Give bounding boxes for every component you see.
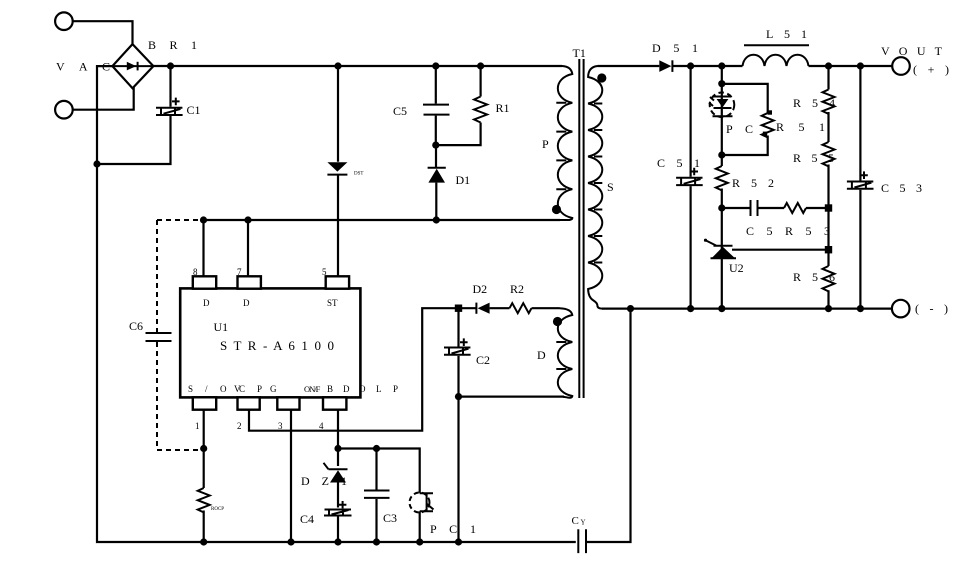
- node C2 rail bottom: [455, 538, 462, 545]
- node C51 bottom: [687, 305, 694, 312]
- svg-text:C 5 R 5 3: C 5 R 5 3: [746, 224, 830, 238]
- AC input terminal top: [55, 12, 73, 30]
- wire top terminal to bridge top: [73, 21, 133, 45]
- node PC1 bottom: [416, 538, 423, 545]
- inductor L51: [743, 45, 829, 66]
- node DST top: [334, 62, 341, 69]
- node C4 bottom: [334, 538, 341, 545]
- capacitor C3: [364, 449, 390, 543]
- node C3 top: [373, 445, 380, 452]
- zener DZ1: [324, 449, 348, 508]
- node L51 right / R54 top: [825, 62, 832, 69]
- node C3 bottom: [373, 538, 380, 545]
- node C5 top: [432, 62, 439, 69]
- svg-text:L: L: [376, 384, 382, 394]
- node R51/LED bottom: [718, 151, 725, 158]
- node C51 top: [687, 62, 694, 69]
- terminal VOUT minus: [892, 300, 910, 318]
- svg-text:C 5 1: C 5 1: [657, 156, 700, 170]
- capacitor C2: [444, 308, 471, 396]
- svg-text:3: 3: [278, 421, 283, 431]
- svg-text:D1: D1: [456, 173, 471, 187]
- svg-text:D2: D2: [473, 282, 488, 296]
- wire primary-return line (drain line): [204, 219, 561, 221]
- svg-text:G: G: [270, 384, 277, 394]
- svg-text:D Z 1: D Z 1: [301, 474, 347, 488]
- node C5/R1/D1: [432, 142, 439, 149]
- node Cy riser: [627, 305, 634, 312]
- capacitor C4: [324, 501, 352, 542]
- resistor R1: [436, 66, 487, 145]
- shunt regulator U2: [704, 208, 829, 309]
- svg-text:S T R - A 6 1 0 0: S T R - A 6 1 0 0: [220, 338, 334, 353]
- svg-text:D: D: [203, 298, 210, 308]
- terminal VOUT plus: [892, 57, 910, 75]
- svg-text:D: D: [243, 298, 250, 308]
- AC input terminal bottom: [55, 101, 73, 119]
- node pin7: [244, 216, 251, 223]
- diode D51: [659, 60, 690, 72]
- svg-text:R 5 2: R 5 2: [732, 176, 774, 190]
- svg-text:R 5 6: R 5 6: [793, 270, 835, 284]
- wire secondary top to D51: [598, 65, 660, 67]
- wire bottom terminal to bridge bottom: [73, 88, 134, 110]
- svg-text:C5: C5: [393, 104, 407, 118]
- diode D2: [459, 303, 510, 314]
- svg-text:O: O: [359, 384, 366, 394]
- node D1 bottom: [433, 216, 440, 223]
- svg-text:C 5 3: C 5 3: [881, 181, 922, 195]
- transformer T1: [552, 59, 607, 398]
- svg-text:5: 5: [322, 267, 327, 277]
- node pin8: [200, 216, 207, 223]
- wire pin3 GND stub to bus: [290, 410, 292, 542]
- node pin3 bottom: [287, 538, 294, 545]
- svg-text:ROCP: ROCP: [211, 507, 224, 512]
- resistor R55: [823, 142, 835, 266]
- node DZ1 top: [334, 445, 341, 452]
- bridge rectifier BR1: [112, 44, 153, 88]
- svg-text:D: D: [343, 384, 350, 394]
- node U2 ref: [825, 246, 832, 253]
- svg-text:C2: C2: [476, 353, 490, 367]
- svg-text:C1: C1: [187, 103, 201, 117]
- node C53 bottom: [857, 305, 864, 312]
- svg-text:S: S: [607, 180, 614, 194]
- capacitor C6 with dashed connections: [146, 220, 204, 450]
- svg-text:D 5 1: D 5 1: [652, 41, 698, 55]
- node C1 bottom to left rail: [93, 160, 100, 167]
- wire to VOUT+ terminal: [860, 65, 892, 67]
- node R56 bottom: [825, 305, 832, 312]
- svg-text:L 5 1: L 5 1: [766, 27, 807, 41]
- diode PC1 LED: [709, 66, 734, 155]
- svg-text:R1: R1: [496, 101, 510, 115]
- capacitor C5: [423, 66, 450, 145]
- svg-text:R 5 4: R 5 4: [793, 96, 835, 110]
- node R52 bottom / C52 / U2: [718, 204, 725, 211]
- resistor ROCP: [198, 449, 210, 543]
- diode D1: [428, 145, 446, 220]
- capacitor C1: [97, 66, 183, 164]
- svg-text:T1: T1: [573, 46, 586, 60]
- svg-text:P C: P C: [726, 122, 753, 136]
- diode DST (bus down to pin5 ST): [327, 66, 347, 276]
- wire pin1 stub: [203, 410, 205, 449]
- transistor PC1 photo-transistor: [410, 493, 434, 543]
- svg-text:2: 2: [237, 421, 242, 431]
- svg-text:U1: U1: [214, 320, 229, 334]
- wire output minus bus: [602, 308, 892, 310]
- svg-text:R2: R2: [510, 282, 524, 296]
- svg-text:B: B: [327, 384, 333, 394]
- svg-text:P: P: [393, 384, 398, 394]
- node VCC/D2/C2 junction: [455, 305, 462, 312]
- svg-text:C3: C3: [383, 511, 397, 525]
- svg-text:C4: C4: [300, 512, 314, 526]
- wire pin4 BD run: [338, 410, 420, 493]
- node PC1 LED top: [718, 62, 725, 69]
- svg-text:4: 4: [319, 421, 324, 431]
- svg-text:DST: DST: [354, 172, 363, 177]
- svg-text:Y: Y: [581, 519, 586, 527]
- wire C2 node to bottom bus: [457, 397, 459, 542]
- svg-text:O: O: [220, 384, 227, 394]
- svg-text:ST: ST: [327, 298, 338, 308]
- svg-text:C6: C6: [129, 319, 143, 333]
- node LED top / R51 branch: [718, 80, 725, 87]
- wire top bus from bridge to transformer primary: [153, 65, 562, 67]
- svg-text:1: 1: [195, 421, 200, 431]
- node pin1 / C6: [200, 445, 207, 452]
- svg-text:ON/F: ON/F: [304, 384, 321, 394]
- resistor R52: [716, 155, 728, 208]
- svg-text:P: P: [542, 137, 549, 151]
- resistor R54: [823, 66, 835, 142]
- wire pin7 stub: [247, 220, 249, 276]
- svg-text:VC: VC: [234, 384, 245, 394]
- node C2 bottom / aux winding return: [455, 393, 462, 400]
- node C1 top: [167, 62, 174, 69]
- resistor R2: [510, 303, 560, 313]
- node R1 top: [477, 62, 484, 69]
- wire pin8 stub: [202, 220, 204, 276]
- svg-text:U2: U2: [729, 261, 744, 275]
- wire aux winding bottom: [459, 396, 565, 398]
- svg-text:S: S: [188, 384, 193, 394]
- node U2 anode bottom: [718, 305, 725, 312]
- capacitor C52: [722, 200, 784, 216]
- svg-text:C: C: [572, 515, 579, 527]
- svg-text:R 5 5: R 5 5: [793, 151, 834, 165]
- svg-text:P: P: [257, 384, 262, 394]
- capacitor C53: [847, 66, 874, 309]
- svg-text:8: 8: [193, 267, 198, 277]
- svg-text:7: 7: [237, 267, 242, 277]
- resistor R56: [823, 266, 835, 309]
- op-amp U1 STR-A6100 body: [180, 267, 398, 431]
- wire DC minus rail: bridge left vertex down left side to bottom bus: [97, 66, 576, 542]
- resistor R53: [784, 203, 829, 213]
- node ROCP bottom: [200, 538, 207, 545]
- wire pin2 VCC run: [249, 308, 459, 431]
- node C53 top: [857, 62, 864, 69]
- capacitor C51: [676, 66, 703, 309]
- capacitor Cy on bottom bus: [578, 309, 630, 553]
- resistor R51: [722, 84, 774, 155]
- svg-text:D: D: [537, 348, 546, 362]
- node R53 right: [825, 204, 832, 211]
- wire bus L51 node to C53 node: [829, 65, 861, 67]
- wire top bus D51 to L51: [691, 65, 743, 67]
